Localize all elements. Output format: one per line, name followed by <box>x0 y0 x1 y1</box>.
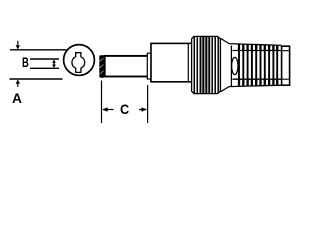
front view outer circle <box>64 45 95 76</box>
boot inner bottom contour <box>233 78 282 80</box>
dimension A bottom extension line <box>10 78 63 80</box>
dimension A top arrow (down) <box>17 41 19 49</box>
body rectangle <box>151 43 192 81</box>
grip shading band <box>200 37 211 93</box>
boot rib thick band segments <box>239 44 277 85</box>
plug tip (hatched) <box>99 55 104 77</box>
boot collar line <box>230 46 232 87</box>
collar at barrel base <box>147 53 151 79</box>
dimension A bottom arrow (up) <box>17 80 19 87</box>
dimension A top extension line <box>10 49 67 51</box>
boot inner top contour <box>233 50 282 52</box>
grip ribs <box>194 37 218 94</box>
dimension C left arrow <box>103 109 114 111</box>
boot ribs <box>239 44 277 85</box>
dimension B double arrow <box>53 60 55 67</box>
dimension B bottom line <box>30 67 59 69</box>
body-grip joint line <box>187 44 189 81</box>
dimension C right arrow <box>139 109 146 111</box>
svg-text:C: C <box>120 101 129 117</box>
grip block <box>192 36 221 93</box>
boot end cap inner lines <box>282 50 290 52</box>
svg-text:B: B <box>22 54 29 70</box>
boot taper bottom edge <box>220 87 229 92</box>
barrel <box>105 56 151 77</box>
dimension C left extension line <box>101 81 103 124</box>
boot top edge <box>229 44 282 46</box>
boot eye detail <box>232 57 238 74</box>
svg-text:A: A <box>12 90 22 106</box>
boot taper top edge <box>220 38 229 43</box>
boot end cap <box>282 46 290 85</box>
dimension B top line <box>30 58 59 60</box>
front view center keyhole <box>72 53 85 73</box>
boot bottom edge <box>229 85 282 86</box>
dimension C right extension line <box>147 85 149 123</box>
